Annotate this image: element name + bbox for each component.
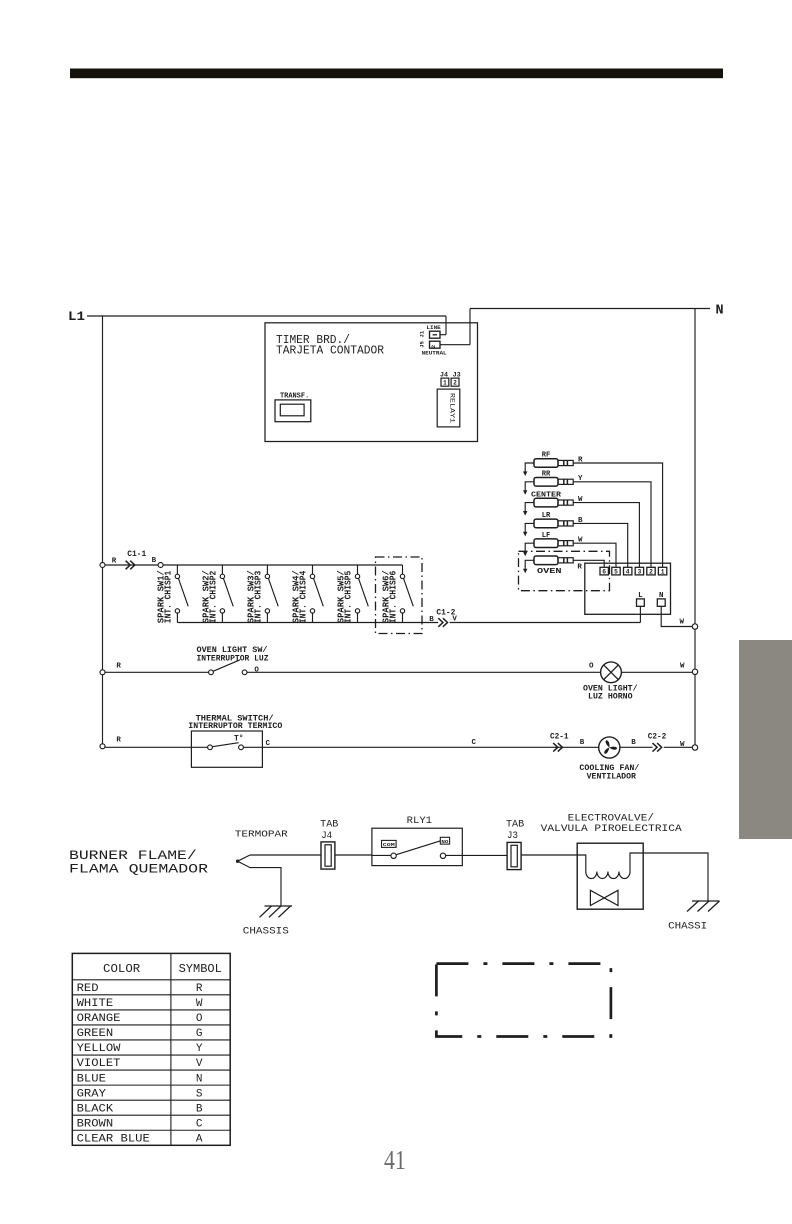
- svg-text:S: S: [196, 1088, 203, 1100]
- svg-text:C: C: [266, 740, 271, 748]
- svg-text:V: V: [452, 616, 457, 624]
- svg-text:A: A: [196, 1133, 203, 1145]
- svg-text:N: N: [716, 304, 724, 319]
- svg-text:VIOLET: VIOLET: [77, 1058, 121, 1070]
- svg-text:TRANSF.: TRANSF.: [280, 392, 309, 400]
- svg-text:INT. CHISP4: INT. CHISP4: [299, 570, 309, 623]
- svg-text:INT. CHISP1: INT. CHISP1: [163, 571, 173, 624]
- svg-text:R: R: [577, 564, 582, 572]
- svg-text:B: B: [580, 739, 585, 747]
- svg-text:YELLOW: YELLOW: [77, 1043, 121, 1055]
- svg-text:3: 3: [638, 568, 642, 575]
- svg-text:RED: RED: [77, 983, 99, 995]
- svg-text:N: N: [659, 592, 664, 600]
- svg-text:2: 2: [430, 344, 437, 348]
- svg-text:Y: Y: [196, 1043, 203, 1055]
- svg-text:NO: NO: [441, 839, 448, 845]
- svg-text:1: 1: [661, 568, 665, 575]
- svg-text:L1: L1: [68, 309, 85, 324]
- svg-text:TAB: TAB: [320, 819, 338, 830]
- svg-text:W: W: [196, 998, 203, 1010]
- svg-text:W: W: [680, 619, 685, 627]
- svg-text:SYMBOL: SYMBOL: [179, 962, 222, 976]
- svg-text:OVEN LIGHT SW/: OVEN LIGHT SW/: [197, 645, 268, 655]
- svg-text:R: R: [116, 737, 121, 745]
- svg-text:R: R: [196, 983, 203, 995]
- svg-text:GREEN: GREEN: [77, 1028, 114, 1040]
- svg-text:RF: RF: [542, 452, 551, 460]
- svg-text:BLUE: BLUE: [77, 1073, 107, 1085]
- svg-text:J4: J4: [321, 831, 332, 842]
- svg-text:FLAMA QUEMADOR: FLAMA QUEMADOR: [69, 861, 208, 876]
- svg-text:RLY1: RLY1: [407, 816, 432, 827]
- svg-text:LR: LR: [542, 512, 551, 520]
- svg-text:5: 5: [614, 568, 618, 575]
- svg-text:O: O: [589, 662, 594, 670]
- svg-text:V: V: [196, 1058, 203, 1070]
- svg-text:BROWN: BROWN: [77, 1118, 114, 1130]
- svg-text:J1: J1: [419, 330, 426, 337]
- svg-text:LF: LF: [542, 532, 551, 540]
- svg-text:C: C: [472, 739, 477, 747]
- svg-text:2: 2: [649, 568, 653, 575]
- svg-text:J3: J3: [507, 831, 518, 842]
- svg-text:4: 4: [626, 568, 630, 575]
- svg-text:LINE: LINE: [426, 324, 441, 331]
- svg-text:1: 1: [443, 379, 447, 386]
- svg-text:INT. CHISP3: INT. CHISP3: [253, 571, 263, 624]
- svg-text:R: R: [116, 663, 121, 671]
- svg-text:COM: COM: [383, 842, 395, 848]
- svg-text:C: C: [196, 1118, 203, 1130]
- svg-text:J5: J5: [419, 340, 426, 347]
- svg-text:W: W: [680, 662, 685, 670]
- svg-text:RELAY1: RELAY1: [449, 393, 456, 423]
- svg-text:WHITE: WHITE: [77, 998, 114, 1010]
- svg-text:C2-1: C2-1: [550, 732, 569, 741]
- svg-text:C2-2: C2-2: [648, 732, 667, 741]
- svg-text:BLACK: BLACK: [77, 1103, 114, 1115]
- svg-text:6: 6: [602, 568, 606, 575]
- svg-text:GRAY: GRAY: [77, 1088, 107, 1100]
- svg-text:O: O: [196, 1013, 203, 1025]
- svg-text:LUZ HORNO: LUZ HORNO: [588, 693, 633, 702]
- svg-text:W: W: [680, 741, 685, 749]
- svg-text:NEUTRAL: NEUTRAL: [422, 350, 448, 357]
- svg-text:VENTILADOR: VENTILADOR: [587, 772, 636, 781]
- svg-text:TAB: TAB: [506, 819, 524, 830]
- svg-text:INTERRUPTOR TERMICO: INTERRUPTOR TERMICO: [188, 721, 282, 731]
- svg-text:TERMOPAR: TERMOPAR: [235, 828, 288, 839]
- svg-text:R: R: [112, 558, 117, 566]
- svg-text:INTERRUPTOR LUZ: INTERRUPTOR LUZ: [197, 654, 269, 663]
- svg-text:INT. CHISP2: INT. CHISP2: [208, 571, 218, 624]
- svg-text:RR: RR: [542, 471, 551, 479]
- svg-text:N: N: [196, 1073, 203, 1085]
- svg-text:OVEN: OVEN: [537, 568, 562, 576]
- svg-text:INT. CHISP5: INT. CHISP5: [344, 571, 354, 624]
- svg-text:INT. CHISP6: INT. CHISP6: [389, 571, 399, 624]
- svg-text:ORANGE: ORANGE: [77, 1013, 121, 1025]
- svg-text:B: B: [196, 1103, 203, 1115]
- svg-text:G: G: [196, 1028, 203, 1040]
- svg-text:TARJETA CONTADOR: TARJETA CONTADOR: [276, 345, 384, 358]
- svg-text:CENTER: CENTER: [531, 491, 562, 499]
- svg-text:L: L: [638, 592, 643, 600]
- svg-text:COLOR: COLOR: [103, 962, 140, 976]
- svg-text:CHASSI: CHASSI: [668, 921, 707, 932]
- svg-text:B: B: [631, 739, 636, 747]
- svg-text:B: B: [152, 557, 157, 565]
- svg-text:41: 41: [384, 1145, 406, 1175]
- svg-text:O: O: [254, 667, 259, 675]
- svg-text:T°: T°: [234, 735, 244, 744]
- svg-text:CLEAR BLUE: CLEAR BLUE: [77, 1133, 151, 1145]
- svg-text:VALVULA PIROELECTRICA: VALVULA PIROELECTRICA: [541, 823, 683, 835]
- svg-text:CHASSIS: CHASSIS: [243, 926, 289, 937]
- svg-text:2: 2: [453, 379, 457, 386]
- svg-text:C1-1: C1-1: [127, 550, 146, 559]
- svg-text:B: B: [429, 616, 434, 624]
